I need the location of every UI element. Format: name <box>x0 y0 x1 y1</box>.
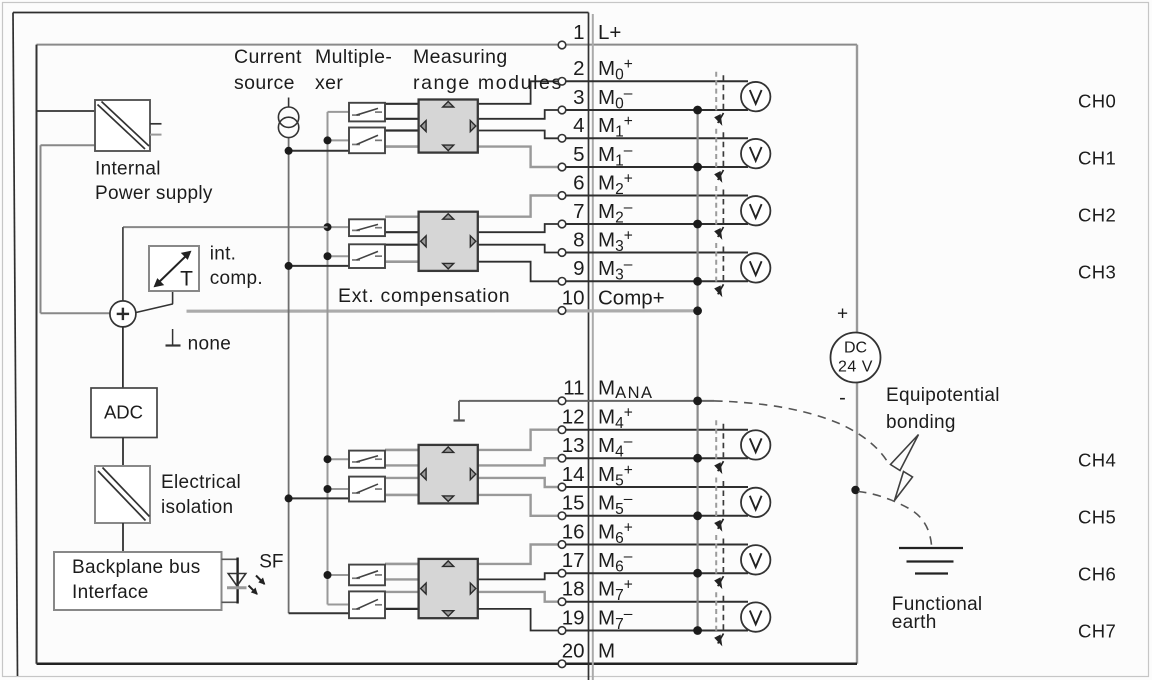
svg-text:T: T <box>180 268 193 291</box>
svg-text:Backplane bus: Backplane bus <box>72 557 201 578</box>
svg-text:6: 6 <box>573 171 584 194</box>
svg-text:DC: DC <box>844 340 867 357</box>
svg-text:14: 14 <box>562 463 585 486</box>
svg-text:Ext. compensation: Ext. compensation <box>338 285 510 307</box>
svg-text:earth: earth <box>892 612 937 633</box>
svg-text:int.: int. <box>210 244 237 265</box>
svg-text:7: 7 <box>573 200 584 223</box>
svg-text:24 V: 24 V <box>838 359 873 376</box>
svg-text:xer: xer <box>315 72 343 94</box>
svg-text:CH6: CH6 <box>1078 564 1116 585</box>
svg-text:source: source <box>234 72 295 94</box>
svg-text:5: 5 <box>573 143 584 166</box>
svg-text:CH3: CH3 <box>1078 262 1116 283</box>
svg-text:CH4: CH4 <box>1078 450 1116 471</box>
svg-text:none: none <box>188 334 231 355</box>
svg-text:CH2: CH2 <box>1078 205 1116 226</box>
svg-text:L+: L+ <box>598 21 621 44</box>
svg-text:16: 16 <box>562 520 585 543</box>
svg-text:ADC: ADC <box>104 402 143 423</box>
svg-text:Power supply: Power supply <box>95 183 213 204</box>
svg-text:comp.: comp. <box>210 268 263 289</box>
svg-text:bonding: bonding <box>886 412 956 433</box>
svg-text:8: 8 <box>573 228 584 251</box>
svg-text:3: 3 <box>573 86 584 109</box>
svg-text:19: 19 <box>562 606 585 629</box>
svg-text:Interface: Interface <box>72 582 149 603</box>
svg-text:2: 2 <box>573 57 584 80</box>
svg-text:Internal: Internal <box>95 159 161 180</box>
svg-text:CH7: CH7 <box>1078 621 1116 642</box>
svg-text:SF: SF <box>259 552 283 573</box>
svg-text:13: 13 <box>562 434 585 457</box>
svg-text:9: 9 <box>573 257 584 280</box>
svg-text:10: 10 <box>562 286 585 309</box>
svg-text:4: 4 <box>573 114 584 137</box>
svg-text:isolation: isolation <box>161 497 233 518</box>
svg-text:CH1: CH1 <box>1078 148 1116 169</box>
svg-text:Current: Current <box>234 46 302 68</box>
svg-text:Comp+: Comp+ <box>598 286 665 309</box>
svg-text:-: - <box>839 387 846 409</box>
svg-text:CH0: CH0 <box>1078 91 1116 112</box>
svg-text:11: 11 <box>563 377 584 400</box>
svg-text:18: 18 <box>562 578 585 601</box>
svg-text:CH5: CH5 <box>1078 507 1116 528</box>
svg-text:Multiple-: Multiple- <box>315 46 392 68</box>
svg-text:17: 17 <box>562 549 585 572</box>
svg-text:20: 20 <box>562 640 585 663</box>
svg-text:Equipotential: Equipotential <box>886 385 1000 406</box>
svg-text:M: M <box>598 640 615 663</box>
svg-text:range modules: range modules <box>413 72 563 94</box>
svg-text:Measuring: Measuring <box>413 46 508 68</box>
svg-text:Electrical: Electrical <box>161 472 241 493</box>
svg-text:15: 15 <box>562 492 585 515</box>
svg-text:+: + <box>837 304 848 325</box>
svg-text:12: 12 <box>562 406 585 429</box>
svg-text:1: 1 <box>573 21 584 44</box>
